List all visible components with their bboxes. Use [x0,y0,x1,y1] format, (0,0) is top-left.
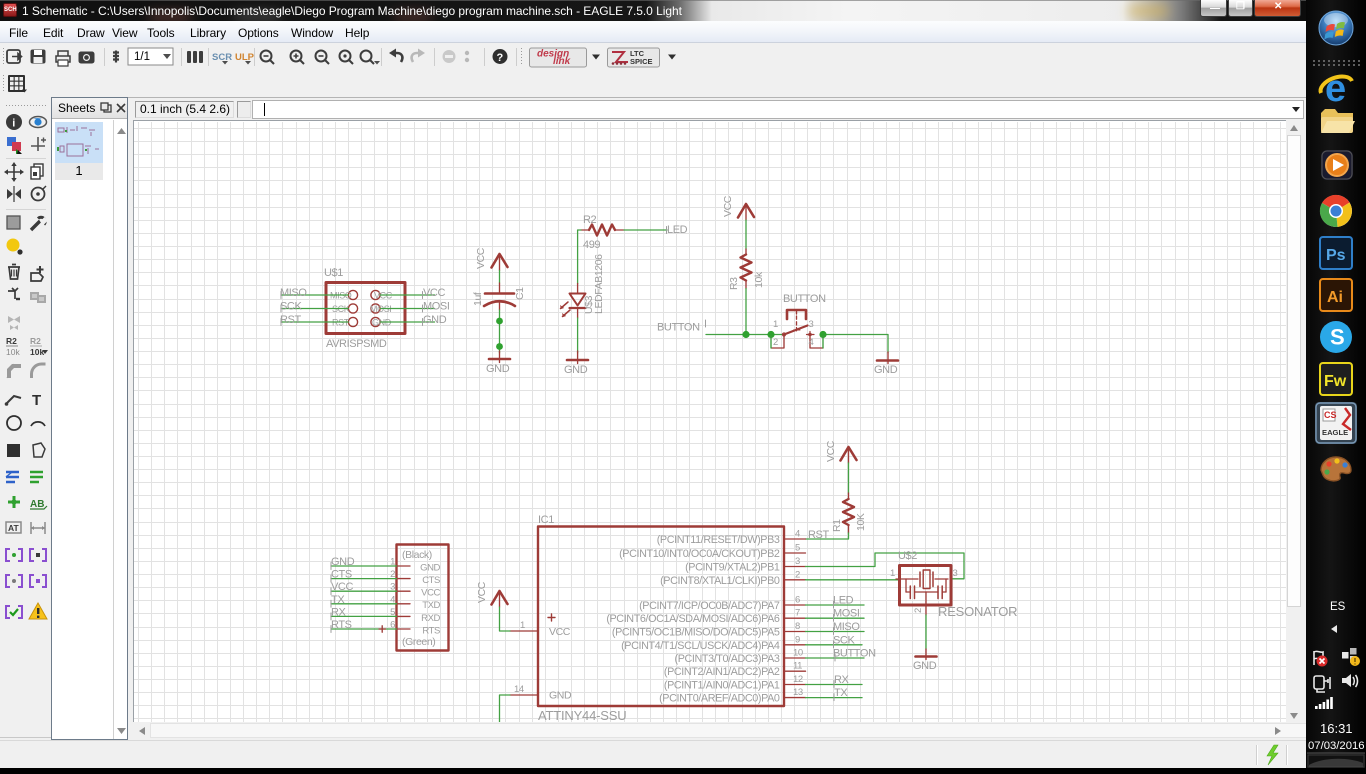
svg-text:ULP: ULP [235,52,255,63]
row1: info / eye [6,114,22,130]
palette [1321,457,1351,481]
svg-text:10k: 10k [30,347,44,357]
svg-text:3: 3 [953,568,958,579]
folder [1321,109,1355,133]
svg-text:GND: GND [549,690,572,702]
Ai [1319,278,1353,312]
svg-text:i: i [12,118,15,130]
wire R3 down to BUTTON net [745,289,747,335]
wire+label SCK [806,634,863,648]
dotted separator [1313,60,1360,66]
wire VCC right [380,294,434,296]
svg-text:SCK: SCK [833,634,855,646]
signal bars [1315,697,1333,709]
row19a: erc purple [6,549,22,561]
svg-text:5: 5 [795,543,800,554]
svg-text:BUTTON: BUTTON [833,648,876,660]
svg-text:e: e [1325,68,1346,110]
svg-text:(PCINT2/AIN1/ADC2)PA2: (PCINT2/AIN1/ADC2)PA2 [664,666,780,678]
svg-text:(PCINT9/XTAL2)PB1: (PCINT9/XTAL2)PB1 [685,562,780,574]
svg-text:1uf: 1uf [472,292,484,306]
svg-text:8: 8 [795,621,800,632]
svg-text:SCR: SCR [212,52,232,63]
svg-text:4: 4 [809,337,814,348]
svg-text:MISO: MISO [833,621,860,633]
svg-text:10K: 10K [855,513,867,531]
wire+label MOSI [806,608,865,622]
U$1 inside pin names [330,291,393,328]
svg-text:1: 1 [520,620,525,631]
resistor R3 [741,249,752,289]
Ps [1319,236,1353,270]
row2: layers / mark [7,137,16,146]
svg-text:(PCINT7/ICP/OC0B/ADC7)PA7: (PCINT7/ICP/OC0B/ADC7)PA7 [639,600,780,612]
wire VCC to pin1 [500,607,511,631]
svg-text:(PCINT1/AIN0/ADC1)PA1: (PCINT1/AIN0/ADC1)PA1 [664,680,780,692]
wire R1 to RST [806,533,849,539]
svg-text:LED: LED [667,224,688,236]
row19b: erc second pair [6,575,22,587]
svg-text:Fw: Fw [1324,373,1347,390]
ground below LED [567,351,588,364]
svg-text:TX: TX [331,594,345,606]
IC1 right pin numbers [793,529,803,699]
supply VCC at pin1 [492,591,508,607]
row16: bus / net [6,472,19,482]
net label VCC right [423,287,446,299]
net label RST [280,314,301,326]
FTDI wires [331,566,397,629]
FTDI inside pin names [420,563,440,637]
svg-text:VCC: VCC [825,440,837,462]
svg-text:SCK: SCK [280,301,302,313]
wire+label RX [806,674,863,688]
svg-text:VCC: VCC [331,581,353,593]
svg-text:VCC: VCC [549,626,571,638]
skype [1320,321,1352,353]
svg-text:R2: R2 [583,214,597,226]
svg-text:14: 14 [514,684,524,695]
junction [767,331,774,338]
switch S1 [772,310,824,348]
svg-text:10k: 10k [6,347,20,357]
svg-text:LED: LED [833,595,854,607]
svg-text:12: 12 [793,674,803,685]
supply VCC above R3 [738,204,754,220]
svg-text:SPICE: SPICE [630,57,653,66]
resistor R2 [581,225,624,236]
wire resonator pin2 to GND [925,615,927,649]
row4: mirror / rotate [7,186,21,202]
resonator U$2 box [900,566,952,606]
svg-text:LEDFAB1206: LEDFAB1206 [593,254,605,314]
svg-text:AT: AT [8,523,20,533]
junction [496,318,503,325]
wire pin2 to resonator pin1 [806,579,900,581]
wire C1 to GND [499,310,501,353]
switch pin numbers [773,319,814,348]
svg-text:R1: R1 [831,519,843,532]
svg-text:RST: RST [808,529,829,541]
svg-text:MOSI: MOSI [423,301,450,313]
svg-text:R3: R3 [728,277,740,290]
svg-text:MISO: MISO [280,287,307,299]
wire MISO left [281,294,348,296]
wire switch to GND corner [823,335,888,354]
wire R2 to LED label [624,229,667,231]
svg-text:MOSI: MOSI [833,608,860,620]
show desktop [1307,753,1365,768]
row15: rect / polygon [7,444,20,457]
row18: attribute / dimension [6,522,21,533]
LED emission arrowheads [560,305,566,317]
updates icon [1342,648,1360,666]
row13: wire / text [6,396,21,404]
svg-text:GND: GND [423,314,447,326]
svg-text:U$1: U$1 [324,267,343,279]
IC1 right pin labels [606,534,780,705]
svg-text:1: 1 [890,568,895,579]
svg-text:RX: RX [331,606,347,618]
wire GND right [380,321,434,323]
FTDI left net labels [331,556,355,631]
svg-text:(PCINT3/T0/ADC3)PA3: (PCINT3/T0/ADC3)PA3 [675,653,780,665]
svg-text:AB: AB [30,499,44,510]
svg-text:U$2: U$2 [898,550,917,562]
svg-text:RX: RX [834,674,850,686]
supply VCC above C1 [492,254,508,271]
svg-text:GND: GND [874,364,898,376]
svg-text:EAGLE: EAGLE [1322,428,1348,437]
speaker [1342,674,1358,687]
svg-text:RTS: RTS [422,626,440,637]
svg-text:16:31: 16:31 [1320,721,1353,736]
svg-text:GND: GND [564,364,588,376]
svg-text:11: 11 [793,661,802,672]
svg-text:(PCINT6/OC1A/SDA/MOSI/ADC6)PA6: (PCINT6/OC1A/SDA/MOSI/ADC6)PA6 [606,613,780,625]
row7: delete / add [8,265,20,280]
svg-text:ATTINY44-SSU: ATTINY44-SSU [538,708,626,723]
svg-text:AVRISPSMD: AVRISPSMD [326,338,387,350]
svg-text:VCC: VCC [476,581,488,603]
svg-text:?: ? [497,52,504,64]
svg-text:BUTTON: BUTTON [783,293,826,305]
U$1 pin circles [348,290,380,326]
row5: group / wrench [7,216,20,229]
wire pin3 to resonator right [806,553,965,579]
svg-text:10: 10 [793,648,803,659]
svg-text:R2: R2 [6,336,17,346]
wire VCC to R3 [745,220,747,249]
svg-text:2: 2 [773,337,778,348]
svg-text:GND: GND [420,563,440,574]
row6: change [7,239,20,252]
svg-text:RTS: RTS [331,619,352,631]
svg-text:7: 7 [795,608,800,619]
svg-text:10k: 10k [753,271,765,288]
svg-text:(Green): (Green) [402,636,435,648]
FTDI pin stubs [397,566,411,629]
svg-text:499: 499 [583,239,600,251]
svg-text:CTS: CTS [331,569,352,581]
row20: errors / warning [6,606,22,618]
svg-text:(PCINT8/XTAL1/CLKI)PB0: (PCINT8/XTAL1/CLKI)PB0 [660,575,780,587]
svg-text:RXD: RXD [421,613,440,624]
wire+label LED [806,595,865,609]
svg-text:link: link [553,56,571,67]
wire+label TX [806,687,863,701]
IC1 box [538,527,784,707]
svg-text:T: T [32,392,41,409]
resistor R1 [843,493,854,533]
svg-text:IC1: IC1 [538,514,554,526]
svg-text:TX: TX [834,687,848,699]
svg-text:VCC: VCC [722,195,734,217]
row11: miter [7,364,21,378]
svg-text:VCC: VCC [475,247,487,269]
net label BUTTON left [657,320,706,334]
wire BUTTON net [706,334,784,336]
wire VCC to C1 [499,271,501,284]
junction [819,331,826,338]
net label MISO [280,287,307,299]
svg-text:CTS: CTS [422,575,440,586]
svg-text:C1: C1 [514,287,526,300]
row14: circle / arc [7,416,21,430]
wire pin14 GND down [500,695,511,723]
capacitor C1 [484,283,515,310]
svg-text:(PCINT5/OC1B/MISO/DO/ADC5)PA5: (PCINT5/OC1B/MISO/DO/ADC5)PA5 [612,627,780,639]
wire MOSI right [380,308,434,310]
resonator internals [896,570,948,615]
wire+label MISO [806,621,865,635]
IC1 pin 1 stub [510,630,538,632]
svg-text:TXD: TXD [422,600,440,611]
svg-text:9: 9 [795,634,800,645]
FTDI label origin ticks [330,563,332,633]
svg-text:(PCINT4/T1/SCL/USCK/ADC4)PA4: (PCINT4/T1/SCL/USCK/ADC4)PA4 [621,640,780,652]
svg-text:2: 2 [795,569,800,580]
svg-text:GND: GND [331,556,355,568]
svg-text:(Black): (Black) [402,549,432,561]
row3: move / copy [4,162,24,182]
flag [1314,651,1328,667]
chrome [1320,195,1352,227]
svg-text:BUTTON: BUTTON [657,322,700,334]
svg-text:2: 2 [913,608,924,613]
wire RST left [281,321,348,323]
IE [1321,68,1352,110]
svg-text:Ai: Ai [1327,289,1343,306]
svg-text:13: 13 [793,687,803,698]
FTDI connector box [397,545,449,651]
svg-text:Ps: Ps [1326,247,1346,264]
svg-text:3: 3 [795,556,800,567]
svg-text:GND: GND [913,660,937,672]
svg-text:1: 1 [773,319,778,330]
svg-text:GND: GND [486,363,510,375]
wire LED to GND [577,318,579,353]
svg-text:CS: CS [1324,410,1337,420]
svg-text:VCC: VCC [423,287,445,299]
row9: gateswap gray [8,316,20,330]
junction [742,331,749,338]
svg-text:07/03/2016: 07/03/2016 [1308,740,1365,752]
net label MOSI right [423,301,450,313]
LED U$3 [561,284,586,318]
svg-text:(PCINT11/RESET/DW)PB3: (PCINT11/RESET/DW)PB3 [657,534,780,546]
svg-text:S: S [1330,325,1345,350]
junction [496,343,503,350]
IC1 pin 14 stub [510,694,538,696]
ground below C1 [489,351,510,363]
svg-text:3: 3 [809,319,814,330]
svg-text:RST: RST [280,314,301,326]
svg-text:6: 6 [795,595,800,606]
net label GND right [423,314,447,326]
svg-text:(PCINT10/INT0/OC0A/CKOUT)PB2: (PCINT10/INT0/OC0A/CKOUT)PB2 [619,548,780,560]
svg-text:4: 4 [795,529,800,540]
svg-text:RESONATOR: RESONATOR [938,604,1017,619]
svg-text:R2: R2 [30,336,41,346]
svg-text:ES: ES [1330,601,1346,613]
IC1 right pin stubs [784,539,806,698]
Fw [1319,362,1353,396]
plus marker [548,614,555,621]
media player [1321,150,1353,180]
net label LED [667,224,688,236]
FTDI pin numbers [390,557,395,631]
net label SCK [280,301,302,313]
row17: junction / label [8,496,20,508]
small cross on RTS wire [379,626,386,632]
wire+label BUTTON [806,648,877,662]
wire VCC to R1 [848,463,850,493]
svg-text:VCC: VCC [421,588,440,599]
power plug [1314,676,1330,692]
row8: pinswap / replace [8,288,20,299]
ground below resonator [916,649,937,660]
svg-text:(PCINT0/AREF/ADC0)PA0: (PCINT0/AREF/ADC0)PA0 [659,693,780,705]
short verticals joining switch bottom pins [771,336,823,348]
svg-text:1/1: 1/1 [134,51,150,63]
supply VCC above R1 [841,447,857,463]
ground right of switch [877,352,898,364]
wire R2 left corner down [578,230,581,284]
wire SCK left [281,308,348,310]
eagle (active) [1315,402,1357,444]
connector U$1 box [326,283,405,334]
